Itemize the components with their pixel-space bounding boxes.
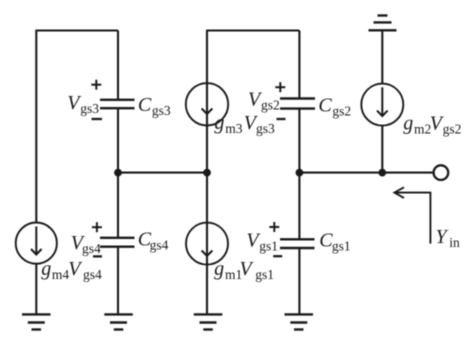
label Vgs4 (71, 232, 101, 256)
svg-text:gs4: gs4 (82, 241, 101, 256)
terminal open circle (434, 165, 449, 180)
plus sign Cgs1 (269, 222, 279, 232)
wire gm4 to ground (35, 264, 37, 315)
node junction dot D (296, 169, 304, 177)
label gm4Vgs4 (41, 258, 102, 282)
label Yin (436, 226, 461, 250)
plus sign Cgs2 (275, 82, 285, 92)
wire Cgs1 to ground (298, 248, 300, 314)
label gm2Vgs2 (403, 112, 461, 136)
svg-text:g: g (41, 258, 51, 280)
svg-text:m3: m3 (225, 121, 243, 136)
Yin reference arrow (394, 187, 430, 243)
ground gm1 branch (194, 314, 223, 329)
wire Cgs4 to ground (117, 247, 119, 315)
svg-text:gs3: gs3 (152, 103, 171, 118)
wire Cgs3 to node (117, 108, 119, 172)
label Vgs3 (67, 92, 99, 116)
svg-text:gs3: gs3 (256, 121, 275, 136)
svg-text:gs4: gs4 (150, 238, 169, 253)
label Vgs1 (246, 230, 278, 254)
svg-text:gs2: gs2 (443, 121, 462, 136)
wire gm2 to node (381, 126, 383, 173)
plus sign Cgs3 (91, 80, 101, 90)
node junction dot C (203, 169, 211, 177)
label Cgs2 (318, 94, 351, 118)
capacitor Cgs4 (100, 238, 135, 247)
svg-text:m2: m2 (414, 121, 431, 136)
ground Cgs1 branch (285, 314, 314, 329)
wire gm3 gm1 column through circles (206, 30, 208, 315)
capacitor Cgs2 (280, 99, 315, 109)
svg-text:gs3: gs3 (80, 101, 99, 116)
wire node to Cgs4 (117, 173, 119, 238)
ground gm4 branch (22, 314, 51, 329)
svg-text:C: C (318, 94, 332, 116)
current source G1 gm1*Vgs1 (186, 223, 228, 265)
wire Cgs2 top vertical (298, 31, 300, 99)
capacitor Cgs1 (280, 239, 315, 248)
wire Cgs2 to Cgs1 through node (298, 109, 300, 240)
wire left node segment (118, 172, 207, 174)
current source G2 gm2*Vgs2 (361, 84, 403, 126)
svg-text:m4: m4 (52, 267, 70, 282)
label Cgs4 (138, 229, 169, 253)
ground top gm2 branch inverted (369, 16, 397, 31)
svg-text:gs1: gs1 (259, 239, 278, 254)
node junction dot E (378, 169, 386, 177)
svg-text:gs1: gs1 (255, 267, 274, 282)
capacitor Cgs3 (100, 100, 135, 108)
minus sign Cgs1 (273, 255, 282, 257)
label Cgs3 (138, 94, 171, 118)
svg-text:C: C (138, 94, 152, 116)
wire Cgs3 top vertical (117, 31, 119, 100)
wire left vertical top to gm4 (35, 30, 37, 223)
svg-text:V: V (240, 258, 255, 280)
label Cgs1 (319, 230, 350, 254)
svg-text:gs2: gs2 (261, 98, 280, 113)
minus sign Cgs4 (93, 255, 102, 257)
label gm1Vgs1 (214, 258, 274, 282)
svg-text:gs4: gs4 (83, 267, 102, 282)
current source G4 gm4*Vgs4 (16, 223, 57, 264)
ground Cgs4 branch (104, 314, 133, 329)
wire top ground to gm2 (381, 30, 383, 83)
node junction dot B (114, 169, 122, 177)
minus sign Cgs2 (277, 118, 286, 120)
svg-text:Y: Y (436, 226, 449, 248)
svg-text:in: in (449, 235, 460, 250)
minus sign Cgs3 (92, 118, 103, 120)
plus sign Cgs4 (92, 222, 102, 232)
svg-text:g: g (214, 258, 224, 280)
wire top-left horizontal (36, 29, 118, 31)
svg-text:V: V (68, 258, 83, 280)
current source G3 gm3*Vgs3 (186, 83, 228, 125)
wire right node segment (299, 172, 433, 174)
svg-text:gs1: gs1 (332, 239, 351, 254)
label Vgs2 (248, 89, 280, 113)
wire top middle horizontal (207, 29, 299, 31)
label gm3Vgs3 (214, 112, 275, 136)
svg-text:gs2: gs2 (332, 103, 351, 118)
svg-text:g: g (214, 112, 224, 134)
svg-text:g: g (403, 112, 413, 134)
